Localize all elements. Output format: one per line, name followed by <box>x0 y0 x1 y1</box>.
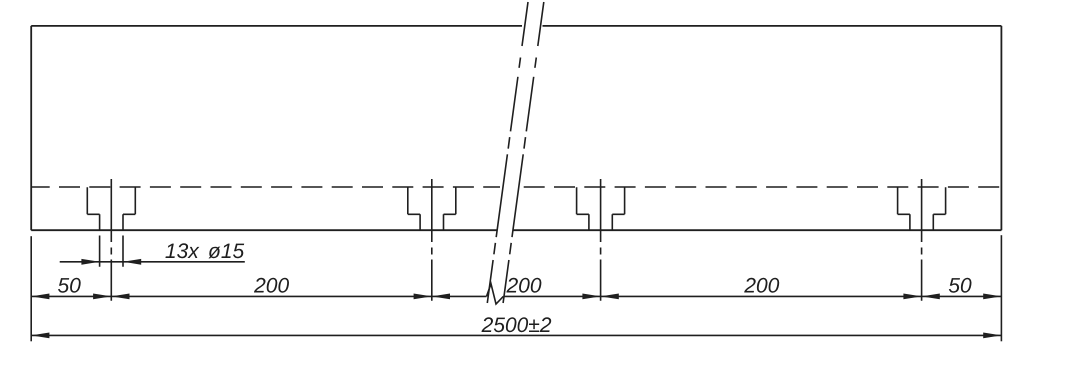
plate outline (right edge) <box>1000 26 1002 230</box>
hole 1 centerline <box>110 179 112 301</box>
arrow chain at right edge (pointing right) <box>983 294 1001 300</box>
hole 4 counterbore <box>898 187 946 214</box>
hole 2 bore <box>420 214 443 230</box>
hole 1 bore extension lines <box>100 236 123 267</box>
plate outline (bottom edge right of break) <box>513 229 1001 231</box>
plate outline (bottom edge left of break) <box>31 229 497 231</box>
hole 2 counterbore <box>408 187 456 214</box>
dimension text 13x ø15 <box>165 243 244 258</box>
break line right (dash-dot) <box>503 2 544 303</box>
hole 4 bore <box>910 214 933 230</box>
overall dimension line 2500±2 <box>31 334 1001 336</box>
hidden dashed line (right of break) <box>524 186 1002 188</box>
hole 1 counterbore <box>87 187 135 214</box>
arrow 13x left (pointing right at x=99.8) <box>81 259 99 265</box>
hole 3 bore <box>589 214 612 230</box>
dimension line break zigzag <box>487 284 504 304</box>
hole 2 centerline <box>431 179 433 301</box>
dimension text 200 <box>744 278 779 293</box>
hidden dashed line (left of break) <box>31 186 500 188</box>
chain dimension line 50/200/200/200/50 (left of break) <box>31 295 486 297</box>
arrows at hole 3 centerline <box>582 294 600 300</box>
arrow chain at left edge (pointing left) <box>31 294 49 300</box>
arrows at hole 1 centerline <box>93 294 111 300</box>
hole 1 bore <box>100 214 123 230</box>
right edge extension line <box>1000 235 1002 341</box>
hole 3 counterbore <box>577 187 625 214</box>
chain dimension line (right of break) <box>503 295 1001 297</box>
arrows at hole 4 centerline <box>903 294 921 300</box>
dimension text 2500±2 <box>482 317 552 332</box>
arrow 13x right (pointing left at x=123.2) <box>123 259 141 265</box>
arrow overall left (pointing left) <box>31 333 49 339</box>
dimension text 50 <box>949 278 972 293</box>
arrows at hole 2 centerline <box>414 294 432 300</box>
plate outline (top edge left of break) <box>31 25 522 27</box>
left edge extension line <box>30 236 32 341</box>
dimension text 200 <box>506 278 541 293</box>
dimension 13x ø15 leader lines <box>60 261 245 263</box>
arrow overall right (pointing right) <box>983 333 1001 339</box>
plate outline (left edge) <box>30 26 32 230</box>
dimension text 200 <box>254 278 289 293</box>
hole 3 centerline <box>600 179 602 301</box>
dimension text 50 <box>58 278 81 293</box>
break line left (dash-dot) <box>487 2 528 303</box>
plate outline (top edge right of break) <box>543 25 1002 27</box>
hole 4 centerline <box>921 179 923 301</box>
